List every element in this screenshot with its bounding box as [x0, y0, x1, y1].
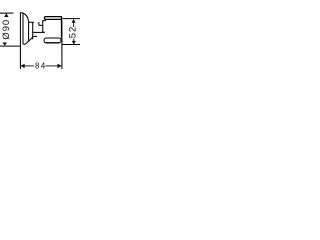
- node cylinder right face: [60, 17, 62, 38]
- svg-text:52: 52: [68, 26, 79, 38]
- svg-text:84: 84: [35, 62, 47, 71]
- node arrow down-right (52 bottom): [72, 41, 76, 44]
- node cylinder bottom cap bold lower edge: [46, 42, 60, 44]
- node body bottom edge: [33, 31, 44, 33]
- node arrow up-left (Ø90 top): [4, 13, 9, 17]
- svg-text:Ø90: Ø90: [1, 19, 12, 40]
- node escutcheon front face + left extension of 84 dim: [19, 12, 21, 69]
- wire bottom dim line right: [46, 65, 62, 67]
- wire right dim line upper: [73, 19, 75, 27]
- wire top-right extension line: [63, 18, 80, 20]
- node cylinder top cap: [44, 17, 61, 20]
- wire right dim line lower: [73, 39, 75, 45]
- wire bottom dim line left: [21, 65, 34, 67]
- node arrow up-right (52 top): [72, 19, 76, 23]
- node escutcheon back face: [22, 13, 24, 44]
- wire bottom-right extension line: [62, 44, 80, 46]
- node arrow down-left (Ø90 bottom): [3, 43, 7, 46]
- node arrow left (84): [21, 64, 25, 69]
- node cylinder bottom cap: [44, 38, 61, 43]
- wire right vertical extension line: [61, 20, 63, 69]
- node neck shelf: [29, 21, 35, 23]
- wire bottom-left extension line: [0, 45, 20, 47]
- wire top-left extension line: [0, 12, 13, 14]
- node neck left vertical: [28, 21, 30, 41]
- node escutcheon lower diagonal: [23, 37, 32, 44]
- node arm bottom line: [39, 24, 43, 26]
- node neck right bar: [32, 22, 34, 39]
- node escutcheon upper-right arc: [23, 13, 28, 21]
- node escutcheon top cap: [20, 12, 23, 14]
- node arm step vertical: [38, 22, 40, 25]
- node arrow right (84): [58, 64, 62, 69]
- node cylinder left face: [43, 20, 46, 33]
- node small ledge: [33, 35, 37, 37]
